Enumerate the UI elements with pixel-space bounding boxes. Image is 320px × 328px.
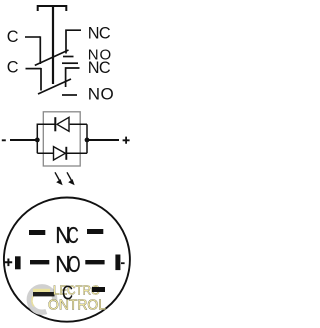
svg-text:ONTROL: ONTROL	[48, 298, 106, 314]
svg-text:NC: NC	[88, 24, 111, 42]
svg-text:C: C	[62, 283, 73, 305]
svg-text:C: C	[7, 58, 19, 76]
svg-text:NO: NO	[88, 85, 114, 104]
svg-text:C: C	[7, 28, 19, 46]
svg-text:NC: NC	[88, 59, 111, 77]
svg-text:O: O	[68, 251, 81, 277]
svg-text:C: C	[67, 222, 78, 248]
